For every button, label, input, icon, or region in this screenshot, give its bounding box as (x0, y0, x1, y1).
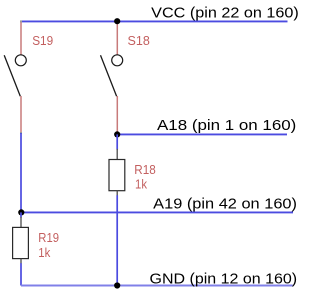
wire A19 net (21, 211, 293, 213)
wire A18 to R18 (116, 134, 118, 149)
svg-text:A18 (pin 1 on 160): A18 (pin 1 on 160) (157, 117, 296, 134)
wire VCC net (21, 20, 288, 22)
wire S19 to A19 (20, 133, 22, 212)
resistor R18 (109, 149, 125, 196)
svg-text:S18: S18 (128, 34, 150, 48)
junction A18 x S18/R18 (114, 131, 120, 137)
svg-text:R18: R18 (134, 163, 156, 177)
wire A19 to R19 (20, 212, 22, 217)
wire R19 to GND corner (20, 263, 22, 285)
resistor R19 (13, 217, 29, 264)
junction GND x R18 (114, 282, 120, 288)
svg-text:1k: 1k (135, 178, 148, 192)
svg-text:A19 (pin 42 on 160): A19 (pin 42 on 160) (153, 195, 297, 212)
svg-text:GND (pin 12 on 160): GND (pin 12 on 160) (150, 270, 298, 287)
wire GND net (21, 284, 293, 286)
wire R18 to GND (116, 195, 118, 285)
svg-text:R19: R19 (38, 231, 59, 245)
svg-text:VCC (pin 22 on 160): VCC (pin 22 on 160) (151, 4, 299, 21)
junction VCC x S18 (114, 18, 120, 24)
switch S18 (101, 21, 123, 134)
switch S19 (4, 20, 26, 134)
svg-text:S19: S19 (32, 34, 53, 48)
svg-text:1k: 1k (38, 246, 51, 260)
wire A18 net (117, 133, 287, 135)
junction A19 x S19/R19 (18, 209, 24, 215)
